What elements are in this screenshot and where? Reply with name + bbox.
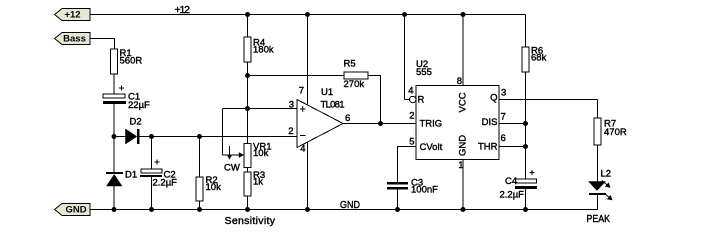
svg-text:GND: GND bbox=[65, 205, 86, 216]
wire reference node to + input bbox=[248, 108, 298, 110]
wire wiper link bbox=[223, 109, 248, 156]
svg-text:TRIG: TRIG bbox=[420, 119, 443, 130]
wire U2 pin 5 to C3 bbox=[398, 147, 417, 183]
svg-text:U1: U1 bbox=[321, 87, 333, 98]
wire C2 to GND rail bbox=[151, 177, 153, 210]
svg-text:L2: L2 bbox=[601, 169, 612, 180]
wire +12 to R4 bbox=[247, 15, 249, 38]
diode D1 bbox=[106, 170, 137, 187]
svg-text:4: 4 bbox=[408, 86, 413, 97]
GND tag bbox=[55, 204, 91, 216]
junction +12 rail / R4 bbox=[245, 12, 250, 17]
LED L2 bbox=[589, 169, 613, 201]
junction D1/GND rail bbox=[112, 207, 117, 212]
junction node A bbox=[245, 73, 250, 78]
svg-text:Q: Q bbox=[490, 93, 497, 104]
junction feedback/output bbox=[378, 121, 383, 126]
capacitor C3 bbox=[387, 178, 438, 196]
svg-text:3: 3 bbox=[289, 100, 294, 111]
junction DIS node bbox=[523, 121, 528, 126]
wire reference node to VR1 top bbox=[247, 109, 249, 144]
svg-text:VCC: VCC bbox=[458, 92, 469, 112]
resistor R4 bbox=[244, 37, 274, 62]
junction C2/GND rail bbox=[149, 207, 154, 212]
wire LED to GND rail bbox=[597, 195, 599, 210]
wire +12 to U2 pin 8 bbox=[462, 15, 464, 86]
wire +12 rail drop to R6 bbox=[525, 15, 527, 48]
potentiometer VR1 bbox=[244, 142, 271, 168]
svg-text:2.2µF: 2.2µF bbox=[153, 178, 178, 189]
svg-text:3: 3 bbox=[501, 88, 506, 99]
wiper arrowhead bbox=[239, 152, 244, 157]
svg-text:D1: D1 bbox=[125, 170, 137, 181]
svg-text:4: 4 bbox=[300, 144, 305, 155]
svg-text:GND: GND bbox=[458, 135, 469, 156]
resistor R5 bbox=[344, 59, 369, 91]
resistor R3 bbox=[244, 170, 265, 196]
signal wire to inverting input bbox=[152, 136, 298, 138]
wire U2 Q output bbox=[499, 99, 598, 101]
svg-text:7: 7 bbox=[299, 86, 304, 97]
svg-text:6: 6 bbox=[501, 133, 506, 144]
CW arrow bbox=[224, 146, 240, 174]
wire GND rail bbox=[91, 209, 598, 211]
svg-text:2.2µF: 2.2µF bbox=[500, 190, 525, 201]
wire U1 pin 4 to GND rail bbox=[307, 140, 309, 210]
wire node A to R5 bbox=[248, 75, 345, 77]
wire +12 to U1 pin 7 bbox=[307, 15, 309, 107]
+12 supply tag bbox=[55, 9, 91, 21]
junction R2/GND rail bbox=[197, 207, 202, 212]
svg-text:Sensitivity: Sensitivity bbox=[225, 215, 276, 227]
svg-text:Bass: Bass bbox=[63, 34, 86, 45]
svg-text:C4: C4 bbox=[505, 176, 517, 187]
timer U2 555 bbox=[408, 59, 506, 171]
capacitor C1 bbox=[103, 86, 150, 112]
junction D2/C2 bbox=[149, 134, 154, 139]
wire R5 to output node bbox=[368, 76, 381, 124]
Bass input tag bbox=[55, 33, 91, 45]
junction R2 tap bbox=[197, 134, 202, 139]
svg-text:180k: 180k bbox=[253, 45, 274, 56]
wire R1 to C1 bbox=[113, 74, 115, 94]
svg-text:+12: +12 bbox=[64, 10, 80, 21]
wire C1 to signal node bbox=[113, 104, 115, 137]
wire R4 to node A bbox=[247, 62, 249, 76]
wire node to D1 bbox=[113, 137, 115, 173]
junction +12 rail / U2 pin 8 bbox=[461, 12, 466, 17]
svg-text:5: 5 bbox=[409, 137, 414, 148]
svg-text:270k: 270k bbox=[344, 79, 365, 90]
wire +12 to U2 reset bubble bbox=[405, 15, 410, 100]
capacitor C4 bbox=[500, 170, 538, 201]
svg-text:R: R bbox=[418, 95, 425, 106]
junction U2 pin1/GND rail bbox=[461, 207, 466, 212]
wire U2 pin 1 to GND rail bbox=[462, 160, 464, 210]
wire U2 THR to node bbox=[499, 146, 526, 148]
wire Bass to R1 bbox=[91, 39, 115, 50]
svg-text:2: 2 bbox=[288, 126, 293, 137]
svg-text:10k: 10k bbox=[253, 148, 269, 159]
junction +12 rail / U1 pin 7 bbox=[305, 12, 310, 17]
junction U1 pin4/GND rail bbox=[305, 207, 310, 212]
svg-text:CVolt: CVolt bbox=[420, 142, 443, 153]
svg-text:470R: 470R bbox=[604, 127, 627, 138]
wire Q to R7 bbox=[597, 100, 599, 119]
resistor R6 bbox=[522, 46, 547, 73]
wire R6 to DIS/THR/C4 bbox=[525, 72, 527, 179]
resistor R2 bbox=[196, 175, 221, 201]
svg-text:+12: +12 bbox=[175, 4, 191, 16]
svg-text:555: 555 bbox=[416, 67, 432, 78]
resistor R1 bbox=[111, 48, 143, 74]
wire VR1 to R3 bbox=[247, 168, 249, 173]
svg-text:R5: R5 bbox=[344, 59, 356, 70]
junction C1/D2/D1 bbox=[112, 134, 117, 139]
wire R7 to LED bbox=[597, 145, 599, 182]
wire R2 to GND rail bbox=[199, 201, 201, 210]
junction R3/GND rail bbox=[245, 207, 250, 212]
svg-text:560R: 560R bbox=[120, 56, 143, 67]
wire C3 to GND rail bbox=[397, 190, 399, 210]
svg-text:22µF: 22µF bbox=[128, 100, 150, 111]
wire node A down to reference node bbox=[247, 76, 249, 109]
svg-text:7: 7 bbox=[501, 112, 506, 123]
wire node to R2 bbox=[199, 137, 201, 178]
wire +12 rail bbox=[91, 14, 526, 16]
svg-text:TL081: TL081 bbox=[321, 100, 345, 111]
junction C4/GND rail bbox=[523, 207, 528, 212]
wire D2 node to C2 bbox=[151, 137, 153, 170]
junction reference node bbox=[245, 106, 250, 111]
svg-text:2: 2 bbox=[409, 111, 414, 122]
svg-text:D2: D2 bbox=[130, 117, 142, 128]
svg-text:DIS: DIS bbox=[482, 117, 498, 128]
svg-text:100nF: 100nF bbox=[411, 185, 438, 196]
svg-text:10k: 10k bbox=[206, 182, 222, 193]
wire D1 to GND rail bbox=[113, 186, 115, 210]
svg-text:68k: 68k bbox=[531, 53, 547, 64]
op-amp U1 TL081 bbox=[288, 86, 350, 155]
diode D2 bbox=[114, 117, 152, 145]
junction C3/GND rail bbox=[395, 207, 400, 212]
wire U1 output to U2 TRIG bbox=[343, 123, 416, 125]
wire R3 to GND rail bbox=[247, 196, 249, 210]
svg-text:PEAK: PEAK bbox=[587, 213, 611, 225]
svg-text:CW: CW bbox=[224, 163, 240, 174]
wire C4 to GND rail bbox=[525, 189, 527, 210]
svg-text:GND: GND bbox=[340, 199, 360, 211]
junction +12 rail / U2 reset bbox=[402, 12, 407, 17]
junction THR node bbox=[523, 144, 528, 149]
U2 reset bubble bbox=[410, 96, 417, 103]
svg-text:1k: 1k bbox=[253, 177, 263, 188]
wire U2 DIS to node bbox=[499, 123, 526, 125]
capacitor C2 bbox=[140, 160, 177, 189]
svg-text:6: 6 bbox=[345, 113, 350, 124]
resistor R7 bbox=[594, 118, 627, 145]
svg-text:THR: THR bbox=[478, 142, 498, 153]
svg-text:8: 8 bbox=[457, 76, 462, 87]
